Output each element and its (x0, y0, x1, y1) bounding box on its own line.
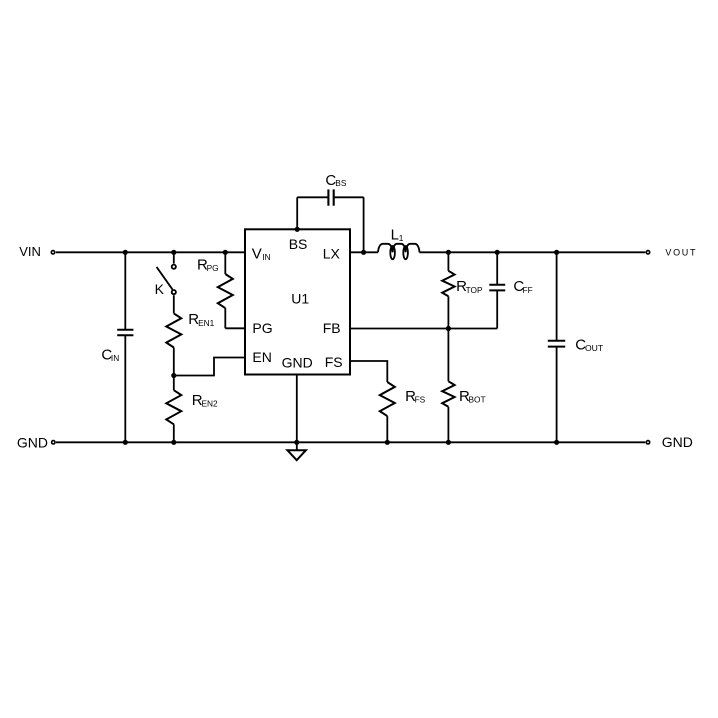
svg-text:K: K (155, 281, 165, 297)
svg-text:BOT: BOT (469, 395, 486, 405)
svg-text:VIN: VIN (19, 244, 41, 259)
svg-text:PG: PG (207, 263, 219, 273)
svg-text:IN: IN (262, 252, 270, 262)
svg-text:L: L (391, 227, 399, 244)
svg-text:V: V (252, 245, 262, 262)
svg-text:FF: FF (523, 285, 533, 295)
svg-text:FS: FS (415, 395, 426, 405)
svg-text:GND: GND (662, 434, 693, 450)
svg-text:BS: BS (289, 236, 308, 252)
svg-text:PG: PG (252, 320, 272, 336)
svg-text:TOP: TOP (466, 285, 483, 295)
svg-text:BS: BS (335, 178, 347, 188)
svg-text:GND: GND (282, 355, 313, 371)
svg-text:VOUT: VOUT (665, 247, 697, 257)
svg-text:IN: IN (111, 353, 119, 363)
svg-text:EN2: EN2 (202, 398, 219, 408)
svg-text:FB: FB (323, 320, 341, 336)
svg-text:1: 1 (399, 233, 404, 243)
svg-text:EN1: EN1 (198, 318, 215, 328)
svg-text:EN: EN (252, 349, 271, 365)
svg-text:FS: FS (325, 354, 343, 370)
svg-text:OUT: OUT (585, 343, 604, 353)
svg-text:LX: LX (323, 245, 341, 261)
svg-text:U1: U1 (291, 291, 309, 307)
svg-text:GND: GND (17, 434, 48, 450)
